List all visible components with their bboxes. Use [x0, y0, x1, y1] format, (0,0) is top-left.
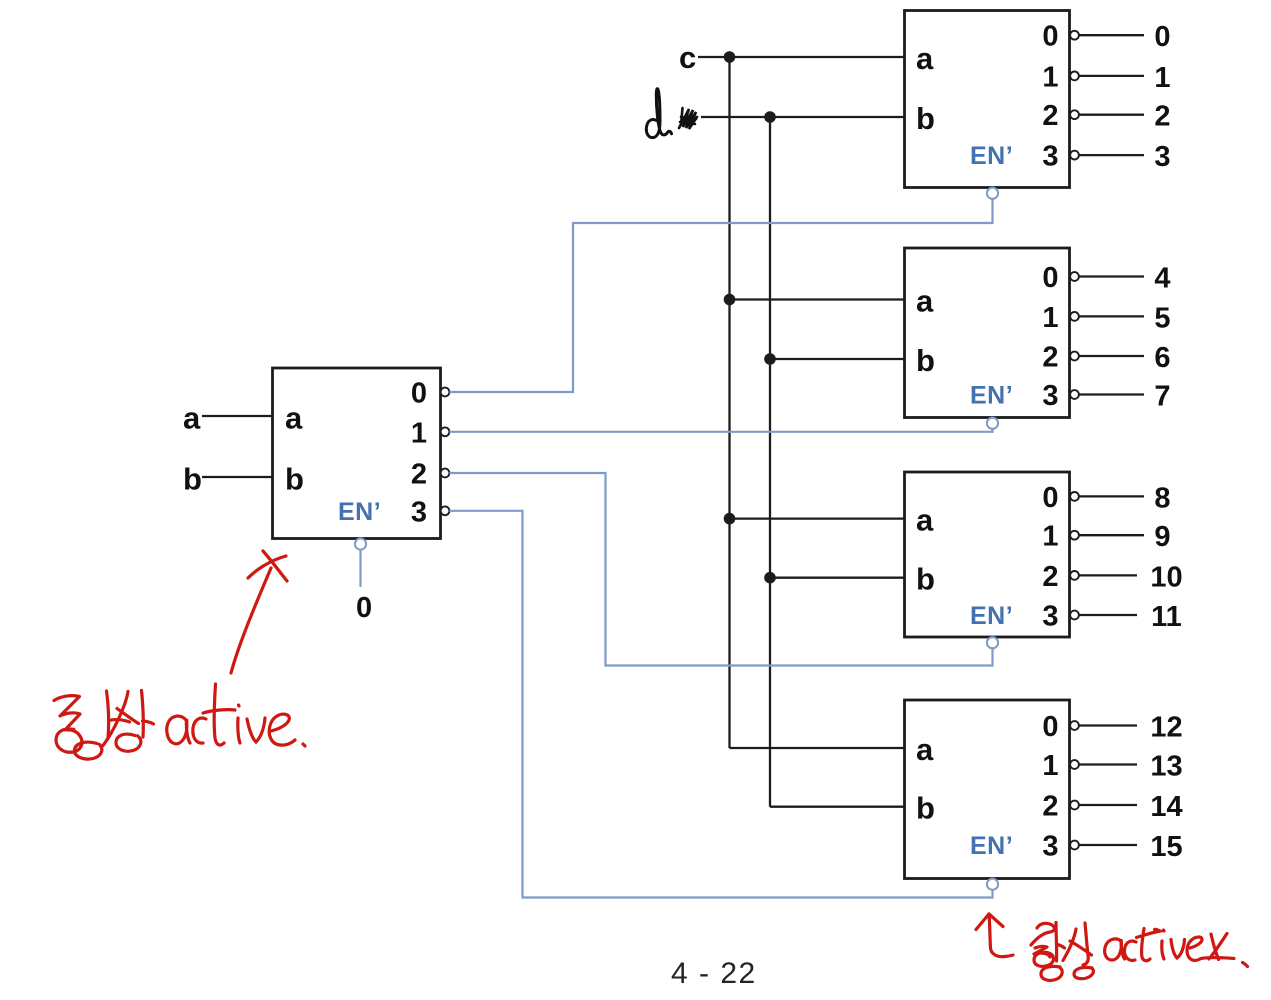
- svg-text:2: 2: [411, 459, 427, 491]
- decoder U3 box: [905, 248, 1070, 418]
- U1 enable stem wire: [359, 550, 361, 587]
- svg-text:5: 5: [1154, 302, 1170, 334]
- svg-text:15: 15: [1150, 831, 1182, 863]
- wire U2 output 3 to net 3: [1079, 154, 1144, 156]
- wire c branch to U3: [730, 298, 905, 300]
- wire U1 output1 to U3 EN: [449, 429, 992, 432]
- decoder U4 box: [905, 472, 1070, 637]
- svg-text:3: 3: [1042, 831, 1058, 863]
- svg-text:b: b: [916, 791, 935, 826]
- wire U5 output 2 to net 14: [1079, 804, 1137, 806]
- red handwriting hangul SANG: [103, 691, 154, 752]
- wire d: [701, 116, 905, 118]
- svg-text:2: 2: [1042, 100, 1058, 132]
- red arrow to U1: [231, 568, 271, 673]
- svg-text:3: 3: [411, 496, 427, 528]
- vertical bus wire c: [728, 57, 730, 748]
- handwritten letter d: [646, 89, 671, 138]
- svg-text:EN’: EN’: [338, 498, 381, 526]
- svg-text:a: a: [916, 284, 934, 319]
- red up arrow at U5 EN: [989, 914, 1013, 957]
- svg-text:1: 1: [411, 417, 427, 449]
- svg-text:c: c: [679, 40, 696, 75]
- decoder U5 box: [905, 700, 1070, 879]
- U3 output bubble 1: [1070, 312, 1079, 321]
- svg-text:0: 0: [1042, 711, 1058, 743]
- svg-text:b: b: [916, 562, 935, 597]
- svg-text:EN’: EN’: [970, 832, 1013, 860]
- svg-text:b: b: [916, 343, 935, 378]
- U3 output bubble 2: [1070, 352, 1079, 361]
- svg-text:2: 2: [1042, 561, 1058, 593]
- svg-text:3: 3: [1154, 141, 1170, 173]
- wire U4 output 3 to net 11: [1079, 614, 1137, 616]
- U2 output bubble 3: [1070, 151, 1079, 160]
- svg-text:0: 0: [1042, 21, 1058, 53]
- svg-text:1: 1: [1042, 750, 1058, 782]
- red handwriting hangul SANG 2: [1063, 923, 1093, 979]
- svg-text:4 - 22: 4 - 22: [671, 957, 757, 990]
- wire U5 output 0 to net 12: [1079, 724, 1137, 726]
- wire U2 output 0 to net 0: [1079, 34, 1144, 36]
- svg-text:8: 8: [1154, 482, 1170, 514]
- decoder U1 box: [273, 368, 441, 539]
- svg-text:0: 0: [1154, 21, 1170, 53]
- U2 output bubble 2: [1070, 110, 1079, 119]
- svg-text:b: b: [183, 462, 202, 497]
- wire U5 output 3 to net 15: [1079, 844, 1137, 846]
- U3 output bubble 3: [1070, 390, 1079, 399]
- U5 output bubble 2: [1070, 801, 1079, 810]
- wire d branch to U5: [770, 806, 905, 808]
- wire U5 output 1 to net 13: [1079, 763, 1137, 765]
- wire a to U1: [202, 415, 273, 417]
- wire U3 output 1 to net 5: [1079, 315, 1144, 317]
- wire U4 output 2 to net 10: [1079, 574, 1137, 576]
- svg-text:2: 2: [1042, 342, 1058, 374]
- svg-text:11: 11: [1151, 601, 1182, 633]
- wire U4 output 1 to net 9: [1079, 534, 1144, 536]
- wire b to U1: [202, 476, 273, 478]
- wire U3 output 3 to net 7: [1079, 393, 1144, 395]
- junction d branch U4: [764, 572, 776, 584]
- svg-text:12: 12: [1150, 712, 1182, 744]
- U3 enable bubble: [987, 418, 998, 429]
- svg-text:1: 1: [1042, 61, 1058, 93]
- svg-text:10: 10: [1150, 561, 1182, 593]
- svg-text:3: 3: [1042, 601, 1058, 633]
- svg-text:7: 7: [1154, 381, 1170, 413]
- svg-text:a: a: [916, 41, 934, 76]
- svg-text:EN’: EN’: [970, 142, 1013, 170]
- junction c branch U4: [724, 513, 736, 525]
- red handwriting activex.: [1105, 929, 1248, 967]
- svg-text:13: 13: [1150, 751, 1182, 783]
- svg-text:EN’: EN’: [970, 382, 1013, 410]
- svg-text:9: 9: [1154, 521, 1170, 553]
- svg-text:14: 14: [1150, 791, 1182, 823]
- U2 enable bubble: [987, 188, 998, 199]
- U1 output bubble 0: [441, 388, 450, 397]
- U4 output bubble 0: [1070, 492, 1079, 501]
- U4 output bubble 1: [1070, 531, 1079, 540]
- junction c/U2: [724, 51, 736, 63]
- svg-text:2: 2: [1042, 791, 1058, 823]
- wire d branch to U3: [770, 358, 905, 360]
- svg-text:a: a: [183, 401, 201, 436]
- wire U4 output 0 to net 8: [1079, 495, 1144, 497]
- svg-text:b: b: [916, 101, 935, 136]
- red arrowhead cross stroke 1: [248, 556, 286, 578]
- red handwriting hangul HANG: [54, 691, 130, 759]
- wire c branch to U4: [730, 517, 905, 519]
- svg-text:a: a: [916, 503, 934, 538]
- red handwriting hangul HANG 2: [1031, 923, 1065, 981]
- svg-text:6: 6: [1154, 342, 1170, 374]
- wire U2 output 1 to net 1: [1079, 75, 1144, 77]
- U5 output bubble 0: [1070, 721, 1079, 730]
- U3 output bubble 0: [1070, 272, 1079, 281]
- wire U3 output 2 to net 6: [1079, 355, 1144, 357]
- svg-text:4: 4: [1154, 263, 1170, 295]
- U1 output bubble 1: [441, 427, 450, 436]
- svg-text:0: 0: [1042, 262, 1058, 294]
- U1 enable bubble: [355, 538, 366, 549]
- wire U1 output0 to U2 EN: [449, 199, 992, 392]
- svg-text:0: 0: [1042, 482, 1058, 514]
- wire c: [698, 56, 905, 58]
- wire U2 output 2 to net 2: [1079, 114, 1144, 116]
- wire c branch to U5: [730, 747, 905, 749]
- U5 enable bubble: [987, 879, 998, 890]
- svg-text:0: 0: [411, 378, 427, 410]
- svg-text:1: 1: [1154, 62, 1170, 94]
- svg-text:2: 2: [1154, 101, 1170, 133]
- U1 output bubble 3: [441, 506, 450, 515]
- decoder U2 box: [905, 11, 1070, 188]
- U4 enable bubble: [987, 637, 998, 648]
- U4 output bubble 3: [1070, 611, 1079, 620]
- red handwriting active.: [167, 684, 305, 746]
- wire U1 output2 to U4 EN: [449, 473, 992, 666]
- U4 output bubble 2: [1070, 571, 1079, 580]
- wire U3 output 0 to net 4: [1079, 275, 1144, 277]
- junction d branch U3: [764, 353, 776, 365]
- svg-text:EN’: EN’: [970, 602, 1013, 630]
- vertical bus wire d: [769, 117, 771, 807]
- junction c branch U3: [724, 294, 736, 306]
- svg-text:1: 1: [1042, 302, 1058, 334]
- svg-text:3: 3: [1042, 141, 1058, 173]
- svg-text:1: 1: [1042, 521, 1058, 553]
- svg-text:a: a: [916, 732, 934, 767]
- U1 output bubble 2: [441, 469, 450, 478]
- U5 output bubble 1: [1070, 760, 1079, 769]
- wire d branch to U4: [770, 577, 905, 579]
- handwritten scribble: [679, 108, 697, 129]
- U2 output bubble 0: [1070, 31, 1079, 40]
- U2 output bubble 1: [1070, 72, 1079, 81]
- U5 output bubble 3: [1070, 841, 1079, 850]
- junction d/U2: [764, 111, 776, 123]
- red up arrow head: [976, 914, 1003, 930]
- red arrowhead cross stroke 2: [263, 551, 287, 581]
- wire U1 output3 to U5 EN: [449, 511, 992, 898]
- svg-text:3: 3: [1042, 380, 1058, 412]
- svg-text:0: 0: [356, 592, 372, 624]
- svg-text:b: b: [285, 462, 304, 497]
- svg-text:a: a: [285, 401, 303, 436]
